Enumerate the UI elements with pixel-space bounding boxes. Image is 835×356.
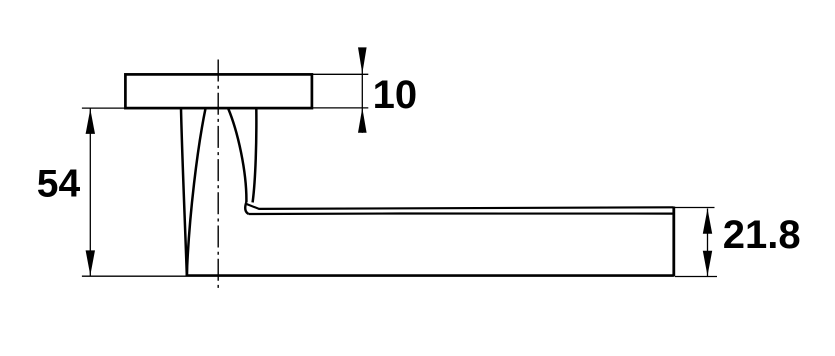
lever top edge line	[259, 207, 673, 209]
lever top second contour line	[249, 212, 674, 215]
svg-text:21.8: 21.8	[723, 213, 801, 257]
dimension 10 upper arrowhead	[358, 47, 367, 73]
neck inner-left contour curve	[187, 109, 206, 275]
dimension 21.8 top arrowhead	[703, 209, 712, 234]
rose plate (top rectangle)	[125, 74, 312, 108]
lever corner chamfer facet	[246, 204, 259, 209]
svg-text:54: 54	[37, 163, 81, 206]
extension line right of lever bottom	[675, 276, 717, 278]
dimension 54 bottom arrowhead	[86, 250, 95, 275]
svg-text:10: 10	[373, 73, 418, 117]
dimension line 21.8	[707, 209, 709, 277]
extension line right of lever top	[675, 207, 715, 209]
neck inner-right contour curve	[228, 109, 246, 203]
extension line right of plate bottom	[313, 107, 368, 109]
dimension line 54	[89, 109, 91, 276]
centerline (dash-dot vertical axis)	[217, 60, 219, 292]
lever right end edge	[672, 207, 675, 277]
extension line left of plate bottom	[82, 107, 125, 109]
extension line right of plate top	[313, 73, 368, 75]
dimension 10 lower arrowhead	[358, 108, 367, 133]
neck outer-left profile line	[181, 109, 187, 275]
dimension line 10	[361, 48, 363, 133]
dimension 21.8 bottom arrowhead	[703, 251, 712, 276]
extension of lever bottom to the left	[82, 275, 186, 277]
dimension 54 top arrowhead	[86, 109, 95, 134]
lever corner arc	[245, 202, 248, 214]
neck outer-right profile line	[253, 109, 257, 203]
lever bottom edge line	[186, 274, 674, 277]
